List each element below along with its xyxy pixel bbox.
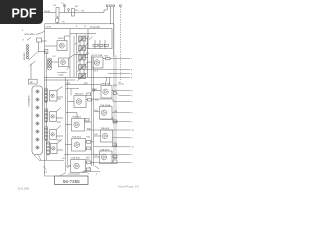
switch S1a [28,52,46,61]
wire [69,29,71,78]
op-amp U103 [88,57,113,68]
wire [73,36,75,77]
svg-text:56-7355: 56-7355 [63,179,80,184]
resistor R102 [72,9,75,17]
svg-text:TDA 1054: TDA 1054 [71,157,81,160]
op-amp U101 [45,36,71,51]
wire [118,83,124,85]
connector J102 [48,58,52,70]
svg-text:2: 2 [132,121,133,123]
potentiometer P4 [77,64,86,72]
wire [87,36,89,77]
wire [40,159,64,161]
op-amp U102 [52,55,89,67]
resistor R101 [56,8,59,18]
svg-text:9: 9 [132,162,133,164]
wire [85,39,87,68]
wire [112,76,130,78]
op-amp U104 [68,93,94,108]
svg-text:TDA1054A: TDA1054A [101,83,111,86]
wire [116,92,131,96]
pin number labels [119,58,134,164]
svg-text:R4 IC1: R4 IC1 [58,38,65,40]
connector J101 [27,44,29,59]
resistor R103 [93,44,97,46]
title box [55,176,89,185]
connector J106 [45,127,48,141]
wire [86,69,130,71]
svg-text:5: 5 [132,95,133,97]
wire [27,37,47,41]
svg-text:Klangregler: Klangregler [90,27,101,29]
wire [64,7,66,13]
op-amp U108 [93,77,117,98]
wire [34,155,41,161]
svg-text:14: 14 [119,82,121,84]
connector J104 [45,88,48,103]
terminal T3 [113,5,115,7]
block frame [88,29,112,49]
wire [45,28,89,30]
wire [113,24,115,160]
wire [44,7,108,13]
wire [68,173,80,175]
svg-text:3: 3 [132,138,133,140]
potentiometer P1 [77,35,86,43]
capacitor C102 [37,38,42,42]
svg-text:TD 62 TDA: TD 62 TDA [92,54,103,57]
wire [30,64,32,80]
svg-text:6: 6 [132,101,133,103]
svg-text:Seite/Page 1/6: Seite/Page 1/6 [118,185,139,189]
op-amp U110 [94,130,117,147]
wire [80,36,84,79]
svg-text:1: 1 [132,154,133,156]
connector J105 [45,109,48,123]
wire [113,7,115,57]
op-amp U107 [66,160,96,173]
svg-text:TDA 1054: TDA 1054 [101,127,111,130]
svg-text:TDA 1054: TDA 1054 [100,148,110,151]
connector J103 [32,86,43,155]
wire [67,67,71,70]
wire [46,52,48,161]
wire [68,11,70,13]
wire [45,175,55,177]
svg-text:PHONO: PHONO [24,52,26,60]
wire [86,129,131,131]
wire [95,40,105,49]
resistor R105 [104,44,108,46]
op-amp U111 [94,151,117,169]
op-amp U109 [94,107,117,124]
wire [95,162,131,164]
wire [119,7,121,80]
wire [57,17,59,24]
wire [115,55,117,160]
svg-text:4: 4 [131,77,132,79]
svg-text:TDA 1054A: TDA 1054A [100,104,111,107]
svg-text:4: 4 [132,113,133,115]
svg-text:6: 6 [131,69,132,71]
svg-text:DIN 41: DIN 41 [44,11,51,13]
connector J107 [47,141,50,155]
wire [66,89,80,96]
svg-text:PDF: PDF [12,6,37,20]
svg-text:TDA 1054: TDA 1054 [75,93,85,96]
wire [36,31,45,34]
wire [65,84,101,86]
svg-text:TDA 1054: TDA 1054 [72,136,82,139]
svg-text:regler: regler [59,74,64,76]
wire [109,7,111,24]
resistor R104 [99,44,103,46]
wire [94,99,131,102]
jack X2 [50,108,63,122]
potentiometer P3 [77,54,86,62]
wire [38,42,40,52]
svg-text:12: 12 [132,147,134,149]
wire [65,77,67,171]
svg-text:10: 10 [132,130,134,132]
svg-text:4: 4 [131,73,132,75]
svg-text:UKW-MW-L: UKW-MW-L [24,34,36,36]
wire [64,154,131,156]
wire [45,23,115,25]
switch S1b [30,61,36,66]
svg-text:TDA 1054: TDA 1054 [72,116,82,119]
wire [84,170,89,174]
node A [63,4,65,6]
capacitor C103 [44,50,48,54]
wire [59,173,66,177]
potentiometer P2 [77,45,86,53]
wire [44,79,75,81]
wire [89,37,93,40]
wire [93,57,95,166]
svg-text:7: 7 [131,58,132,60]
wire [91,55,93,166]
svg-text:1k: 1k [75,44,77,46]
capacitor C101 [56,18,59,22]
terminal T1 [106,5,108,7]
jack X3 [50,126,63,140]
resistor R106 [106,57,111,60]
wire [112,112,131,114]
potentiometer P5 [77,73,86,81]
wire [82,170,100,172]
wire [44,24,46,176]
wire [67,80,69,165]
svg-text:C4 R5: C4 R5 [46,27,53,29]
wire [100,120,131,122]
wire [44,76,112,78]
node B [68,9,70,11]
label box [28,79,37,84]
wire [94,146,131,148]
wire [112,58,130,60]
wire [88,59,113,63]
terminal T4 [120,5,122,7]
svg-text:8: 8 [132,90,133,92]
svg-text:47k: 47k [86,53,89,55]
PDF badge [0,0,43,24]
jack X1 [50,86,64,101]
wire [112,90,131,92]
wire [70,33,96,35]
op-amp U105 [66,113,92,131]
wire [113,137,131,139]
wire [108,73,130,75]
jack X4 [51,140,64,154]
svg-text:TONBAND: TONBAND [27,95,30,107]
wire [43,166,47,170]
rotated connector labels [24,52,30,107]
wire [76,34,78,78]
svg-text:26.01.1985: 26.01.1985 [18,189,30,191]
terminal T2 [110,5,112,7]
op-amp U106 [66,139,94,152]
